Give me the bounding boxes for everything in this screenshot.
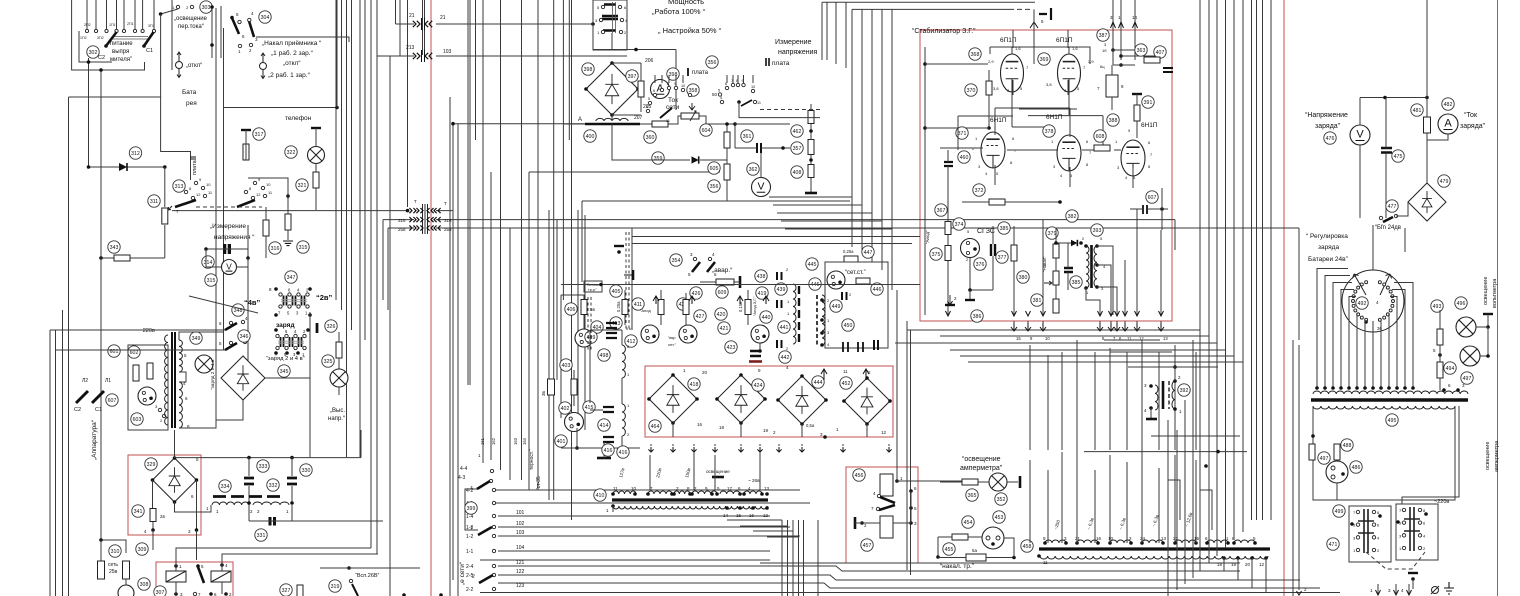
wire 258 xyxy=(388,227,414,229)
wire xyxy=(399,0,401,56)
lamp 496 xyxy=(1456,317,1476,337)
svg-text:заряда”: заряда” xyxy=(1315,123,1341,130)
svg-text:397: 397 xyxy=(628,74,637,80)
junction xyxy=(1204,464,1208,468)
svg-text:“заряд 2 и 4 в”: “заряд 2 и 4 в” xyxy=(266,356,305,362)
svg-text:1: 1 xyxy=(470,526,473,532)
svg-text:315: 315 xyxy=(299,245,308,251)
svg-text:6: 6 xyxy=(653,89,655,93)
terminal 359 xyxy=(652,152,664,164)
terminal 420 xyxy=(715,308,727,320)
wires tubes xyxy=(1012,80,1014,95)
svg-text:321: 321 xyxy=(298,183,307,189)
wire 102 xyxy=(498,526,790,528)
staircase wires xyxy=(1168,480,1180,520)
switch fan I xyxy=(194,181,197,184)
wire xyxy=(612,506,614,512)
svg-text:Батареи 24в”: Батареи 24в” xyxy=(1308,256,1348,263)
diode 312 xyxy=(89,166,165,168)
wire xyxy=(1192,340,1194,578)
svg-text:426: 426 xyxy=(692,291,701,297)
wire xyxy=(1104,339,1160,341)
svg-text:3П1: 3П1 xyxy=(148,24,155,28)
wire xyxy=(582,200,850,202)
terminal 421 xyxy=(718,322,730,334)
switch blade 2 xyxy=(479,575,493,583)
svg-text:398: 398 xyxy=(584,67,593,73)
terminal 464 xyxy=(649,420,661,432)
wire xyxy=(1128,366,1218,368)
selector symbol xyxy=(260,63,267,70)
resistor 370 xyxy=(986,81,992,95)
capacitors xyxy=(842,292,847,300)
terminal 413 xyxy=(610,317,622,329)
socket 486 xyxy=(1326,461,1348,483)
svg-text:162: 162 xyxy=(491,437,496,445)
feeder wires from above xyxy=(649,455,651,490)
capacitor black xyxy=(750,351,761,356)
voltmeter xyxy=(222,260,237,275)
svg-text:161: 161 xyxy=(480,437,485,445)
svg-text:447: 447 xyxy=(864,250,873,256)
wire top rail xyxy=(561,284,920,286)
wire xyxy=(760,562,1240,564)
svg-text:456: 456 xyxy=(855,473,864,479)
wire xyxy=(1084,451,1247,453)
svg-text:заряд: заряд xyxy=(276,322,295,329)
svg-text:481: 481 xyxy=(1413,108,1422,114)
terminal 310 xyxy=(109,545,121,557)
svg-text:258: 258 xyxy=(398,227,406,232)
svg-text:6Н1П: 6Н1П xyxy=(990,117,1007,124)
resistor 327 xyxy=(297,585,303,596)
terminal 375 xyxy=(930,248,942,260)
terminal 385b xyxy=(1070,276,1082,288)
terminal 604 xyxy=(700,124,712,136)
wire xyxy=(576,428,578,448)
wire xyxy=(179,372,186,382)
switch link xyxy=(112,37,148,40)
wire xyxy=(164,167,166,207)
svg-text:357: 357 xyxy=(793,146,802,152)
wire xyxy=(309,312,311,457)
terminal 311 xyxy=(148,195,160,207)
svg-text:385: 385 xyxy=(1072,280,1081,286)
red box relays bottom-left xyxy=(156,562,233,596)
switch blade xyxy=(198,567,204,583)
terminal 304 xyxy=(259,11,271,23)
contacts xyxy=(174,564,178,568)
svg-text:322: 322 xyxy=(287,150,296,156)
wire xyxy=(320,567,420,569)
wire xyxy=(767,536,799,538)
wire xyxy=(940,335,1209,337)
terminal 419 xyxy=(756,287,768,299)
wire 21 right xyxy=(436,23,593,25)
wire terminal xyxy=(86,0,88,29)
svg-text:486: 486 xyxy=(1352,465,1361,471)
bottom taps xyxy=(611,504,615,508)
wire xyxy=(632,236,920,238)
terminal 441 xyxy=(778,321,790,333)
terminal 447 xyxy=(862,246,874,258)
terminal 347 xyxy=(274,287,278,291)
wire 316 xyxy=(383,219,414,221)
terminal 445 xyxy=(806,258,818,270)
terminal 414 xyxy=(598,419,610,431)
capacitor C2 xyxy=(76,391,88,403)
wire xyxy=(1151,435,1240,437)
terminal 346 xyxy=(238,330,250,342)
terminal 607b xyxy=(1146,191,1158,203)
tap dots xyxy=(611,492,615,496)
coil 498 xyxy=(622,345,625,378)
svg-text:пер.тока“: пер.тока“ xyxy=(178,24,204,30)
svg-text:441: 441 xyxy=(780,325,789,331)
wire xyxy=(220,6,222,58)
arrows 3 1 14 xyxy=(1112,0,1114,60)
resistor 609 xyxy=(716,279,734,285)
bottom arrows xyxy=(1377,584,1379,594)
red box rectifiers xyxy=(645,366,893,437)
svg-text:354: 354 xyxy=(672,258,681,264)
arrow labels below box xyxy=(1011,323,1017,331)
wire xyxy=(1424,512,1428,516)
wire xyxy=(100,258,102,540)
svg-text:464: 464 xyxy=(651,424,660,430)
wire xyxy=(556,220,558,380)
svg-text:7: 7 xyxy=(660,84,662,88)
svg-text:363: 363 xyxy=(1137,48,1146,54)
winding 495 bottom xyxy=(1313,406,1455,409)
wire xyxy=(449,97,451,596)
capacitor top xyxy=(1483,313,1493,315)
lamp 497 xyxy=(1460,346,1480,366)
terminal 602 xyxy=(128,346,140,358)
resistor 365 xyxy=(962,479,978,485)
svg-text:603: 603 xyxy=(133,417,142,423)
switch blade C1 xyxy=(144,32,154,46)
svg-text:492: 492 xyxy=(1358,301,1367,307)
svg-text:303: 303 xyxy=(202,5,211,11)
primary winding xyxy=(613,506,767,509)
wire xyxy=(172,210,252,212)
terminal 477 xyxy=(1386,200,1398,212)
svg-text:4: 4 xyxy=(720,96,722,100)
terminal 449 xyxy=(830,300,842,312)
svg-text:2-4: 2-4 xyxy=(466,564,473,570)
svg-text:1-1: 1-1 xyxy=(466,549,473,555)
svg-text:499: 499 xyxy=(1335,509,1344,515)
ammeter tok seti xyxy=(651,80,670,99)
terminal 476 xyxy=(1324,132,1336,144)
svg-text:„Аппаратура“: „Аппаратура“ xyxy=(91,420,98,460)
svg-text:482: 482 xyxy=(1444,102,1453,108)
switch blade vsp xyxy=(352,584,358,596)
svg-text:10: 10 xyxy=(1108,536,1114,541)
terminal 368 xyxy=(969,48,981,60)
terminal 457 xyxy=(861,539,873,551)
terminal 345 xyxy=(278,365,290,377)
svg-text:122: 122 xyxy=(516,569,525,575)
svg-text:плата: плата xyxy=(192,159,198,175)
svg-text:„откл“: „откл“ xyxy=(283,60,301,67)
wire xyxy=(753,530,793,532)
svg-text:307: 307 xyxy=(156,590,165,596)
svg-text:326: 326 xyxy=(327,324,336,330)
capacitors xyxy=(777,272,782,280)
misc wires stab xyxy=(958,115,1013,117)
svg-text:497: 497 xyxy=(1320,456,1329,462)
resistor xyxy=(683,300,689,315)
wire xyxy=(925,63,988,65)
svg-text:напр.“: напр.“ xyxy=(328,416,345,422)
svg-text:“Анод З,Г,”: “Анод З,Г,” xyxy=(752,296,757,316)
wire xyxy=(937,537,939,557)
svg-text:4: 4 xyxy=(646,105,648,109)
tube 6N1P c xyxy=(1121,140,1145,176)
pins xyxy=(671,373,675,377)
svg-text:602: 602 xyxy=(130,350,139,356)
svg-text:393: 393 xyxy=(1093,228,1102,234)
wire nakal xyxy=(256,37,349,42)
svg-text:317: 317 xyxy=(255,132,264,138)
dashed xyxy=(760,109,820,111)
socket anod ZG xyxy=(751,325,769,343)
terminal 475 xyxy=(1392,150,1404,162)
contact 4-1 xyxy=(492,501,495,504)
riser group xyxy=(826,2,828,60)
switch blade xyxy=(237,200,255,207)
terminal 332 xyxy=(267,479,279,491)
wire xyxy=(1004,538,1014,558)
svg-text:Бата: Бата xyxy=(182,89,197,96)
wire xyxy=(424,0,426,55)
wire xyxy=(1174,367,1176,381)
svg-text:„2 раб. 1 зар.“: „2 раб. 1 зар.“ xyxy=(268,71,310,79)
svg-text:449: 449 xyxy=(832,304,841,310)
wire xyxy=(236,225,248,267)
relay K2 xyxy=(211,571,231,582)
svg-text:10: 10 xyxy=(681,84,685,88)
top winding sections xyxy=(1045,540,1066,543)
resistor xyxy=(856,278,870,284)
socket 453 xyxy=(982,527,1004,549)
svg-text:сеть: сеть xyxy=(108,562,118,568)
terminal 398b xyxy=(667,68,679,80)
lamp vys xyxy=(338,358,340,369)
resistor xyxy=(1309,444,1315,460)
terminal 400 xyxy=(584,130,596,142)
terminal 354 xyxy=(670,254,682,266)
wire xyxy=(960,355,1234,357)
resistor 363 xyxy=(1144,57,1160,63)
wire xyxy=(577,210,579,420)
terminal 327 xyxy=(280,584,292,596)
terminal 352 xyxy=(995,493,1007,505)
terminal 416 xyxy=(602,444,614,456)
svg-text:13: 13 xyxy=(764,486,770,491)
resistor 321 xyxy=(313,172,319,188)
capacitor bar xyxy=(316,323,319,333)
wire xyxy=(395,0,397,24)
svg-text:378: 378 xyxy=(1045,129,1054,135)
rotary contacts bank 1 xyxy=(653,93,656,96)
terminal 322 xyxy=(285,146,297,158)
svg-text:319: 319 xyxy=(331,584,340,590)
wire xyxy=(179,332,224,340)
terminal 349 xyxy=(190,332,202,344)
svg-text:заряда: заряда xyxy=(1318,244,1339,251)
svg-text:399: 399 xyxy=(467,506,476,512)
svg-text:341: 341 xyxy=(134,509,143,515)
wire xyxy=(735,123,790,125)
svg-text:3,8: 3,8 xyxy=(1046,82,1052,87)
terminal 330 xyxy=(300,464,312,476)
wire mesh xyxy=(590,329,622,331)
terminal 412 xyxy=(625,335,637,347)
terminal 341 xyxy=(132,505,144,517)
svg-text:477: 477 xyxy=(1388,204,1397,210)
svg-text:400: 400 xyxy=(586,134,595,140)
wire A line left xyxy=(453,123,588,125)
wires trans taps xyxy=(1097,246,1113,315)
svg-text:361: 361 xyxy=(743,134,752,140)
svg-text:10: 10 xyxy=(206,182,211,187)
wire xyxy=(469,0,471,385)
coil 439 xyxy=(793,284,796,344)
wire xyxy=(196,530,198,560)
resistor 316 xyxy=(263,220,269,236)
wire xyxy=(910,330,912,575)
wire xyxy=(727,519,782,521)
terminal 497b xyxy=(1318,452,1330,464)
resistor 608 xyxy=(1094,145,1110,151)
svg-text:371: 371 xyxy=(958,131,967,137)
contact 1-1 xyxy=(492,549,495,552)
svg-text:10: 10 xyxy=(631,486,637,491)
svg-text:14: 14 xyxy=(723,513,729,518)
diode 385 xyxy=(1071,240,1077,246)
voltmeter 362 xyxy=(752,178,771,197)
terminal 314 xyxy=(202,256,214,268)
switch blade xyxy=(175,200,196,207)
contacts xyxy=(909,489,913,493)
svg-text:V: V xyxy=(226,263,232,272)
wire xyxy=(581,201,583,282)
svg-text:163: 163 xyxy=(513,437,518,445)
wire 21 xyxy=(396,23,415,25)
wire xyxy=(1208,0,1210,563)
svg-text:121: 121 xyxy=(516,560,525,566)
terminal 315 xyxy=(297,241,309,253)
contact 1-4 xyxy=(492,514,495,517)
potentiometer 604 xyxy=(681,113,699,119)
svg-text:604: 604 xyxy=(702,128,711,134)
wire xyxy=(1184,400,1186,584)
terminal 410 xyxy=(594,489,606,501)
wire 121 xyxy=(498,566,1240,571)
terminal 393 xyxy=(1091,224,1103,236)
wires xyxy=(855,522,880,524)
resistor 604 xyxy=(640,123,672,125)
svg-text:352: 352 xyxy=(997,497,1006,503)
svg-text:13: 13 xyxy=(1161,536,1167,541)
label vspom xyxy=(584,281,602,292)
svg-text:C1: C1 xyxy=(146,48,153,54)
svg-text:391: 391 xyxy=(1144,100,1153,106)
svg-text:сети: сети xyxy=(666,104,680,111)
svg-text:Л1: Л1 xyxy=(105,378,111,384)
terminal 379 xyxy=(1046,227,1058,239)
capacitor 5 xyxy=(1039,8,1051,20)
wire xyxy=(1292,340,1294,596)
svg-text:314: 314 xyxy=(204,260,213,266)
svg-text:“2в”: “2в” xyxy=(316,293,333,302)
svg-text:„Выс.: „Выс. xyxy=(330,408,345,414)
svg-text:20: 20 xyxy=(702,370,708,375)
wire xyxy=(480,592,1340,594)
wire xyxy=(760,153,762,177)
svg-text:тр-р”: тр-р” xyxy=(588,288,597,292)
switch module A xyxy=(279,293,282,296)
wire xyxy=(175,457,362,459)
svg-text:„авар.“: „авар.“ xyxy=(712,267,732,274)
svg-text:316: 316 xyxy=(271,246,280,252)
svg-text:6П1П: 6П1П xyxy=(1000,37,1017,44)
capacitors 499 xyxy=(606,323,617,328)
winding 495 top xyxy=(1313,391,1468,394)
tube socket 603 xyxy=(138,387,156,405)
svg-text:455: 455 xyxy=(945,547,954,553)
wire xyxy=(467,0,469,385)
svg-text:380: 380 xyxy=(1019,275,1028,281)
fan wires down xyxy=(1317,269,1348,389)
svg-text:16: 16 xyxy=(697,422,703,427)
svg-text:6Н1П: 6Н1П xyxy=(1046,114,1063,121)
wire 123 xyxy=(498,583,1320,588)
relay stack right xyxy=(1396,504,1438,560)
terminal 386 xyxy=(971,310,983,322)
svg-text:„Накал приёмника “: „Накал приёмника “ xyxy=(262,40,321,47)
wire xyxy=(482,0,484,463)
terminal 601 xyxy=(108,345,120,357)
svg-text:442: 442 xyxy=(781,355,790,361)
tube 6N1P a xyxy=(981,132,1005,168)
terminal 315 xyxy=(205,274,217,286)
svg-text:~ 220в: ~ 220в xyxy=(138,328,155,334)
wire xyxy=(215,8,217,420)
wire xyxy=(475,0,477,140)
svg-text:334: 334 xyxy=(221,484,230,490)
switch blade 4 xyxy=(477,481,490,489)
svg-text:452: 452 xyxy=(842,381,851,387)
svg-text:387: 387 xyxy=(1099,33,1108,39)
terminal 418 xyxy=(688,378,700,390)
bridge 345 xyxy=(221,356,265,400)
bridge 452 xyxy=(844,378,890,424)
wire xyxy=(798,520,800,596)
svg-text:13: 13 xyxy=(1163,336,1168,341)
contact 2-4 xyxy=(492,564,495,567)
wire xyxy=(49,330,51,596)
contact 1-3 xyxy=(492,525,495,528)
wire xyxy=(346,0,348,457)
wire xyxy=(164,225,166,258)
ground 392 xyxy=(1150,408,1152,418)
svg-text:332: 332 xyxy=(269,483,278,489)
wire xyxy=(759,343,761,351)
